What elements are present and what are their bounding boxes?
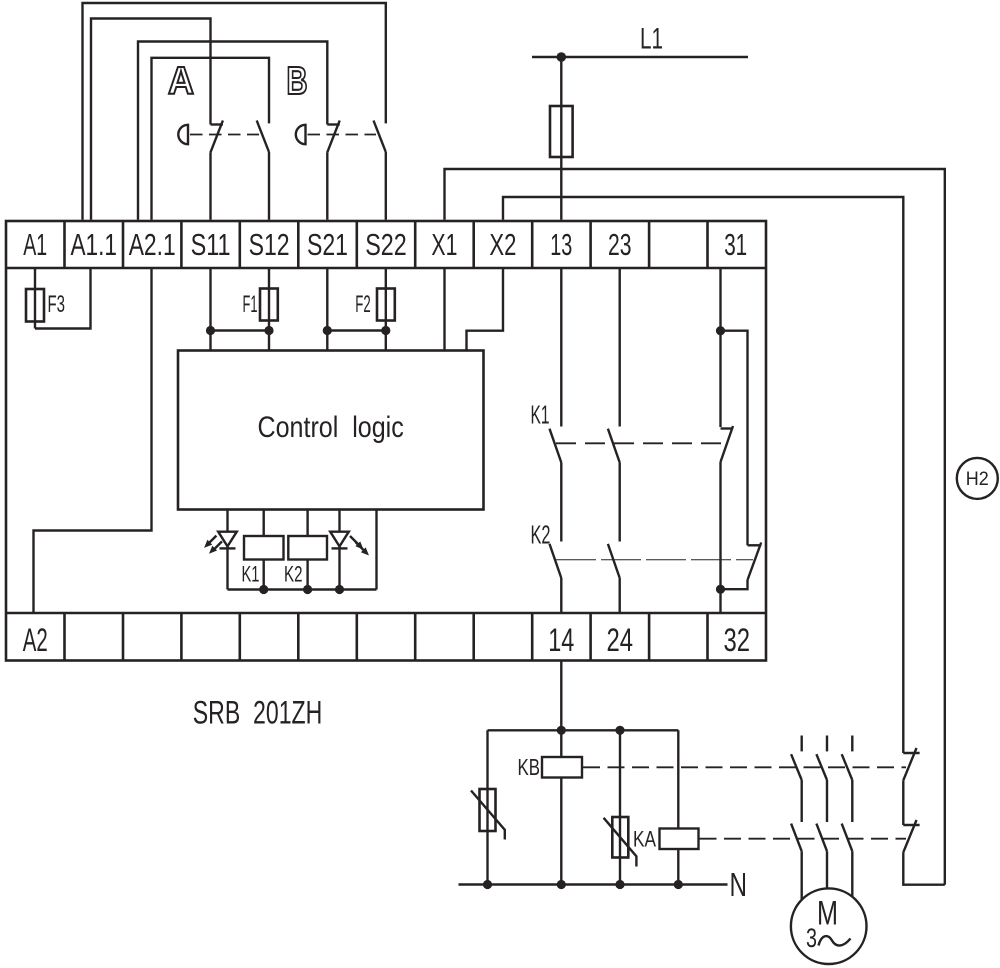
LED V2 cathode bar: [332, 547, 348, 549]
wire S12 down through F1 to control logic: [268, 268, 270, 351]
LED V1 emission arrow 2: [214, 541, 222, 549]
wire S22 down through F2 to control logic: [385, 268, 387, 351]
wire to terminal 24: [619, 578, 621, 613]
svg-text:F2: F2: [355, 291, 370, 318]
svg-text:Control logic: Control logic: [258, 411, 404, 444]
button B NO contact (S22) bottom lead: [385, 152, 387, 220]
junction coil bus at varistor 2: [615, 726, 624, 735]
svg-text:N: N: [730, 866, 748, 903]
LED V2 emission arrow 1: [350, 536, 359, 545]
button B NC contact (S21) lever: [327, 121, 339, 153]
svg-text:24: 24: [607, 622, 634, 658]
terminal dividers bottom row: [65, 613, 708, 661]
contact K1 NC (31-32) lever: [721, 426, 734, 462]
junction 31 branch: [716, 326, 725, 335]
svg-text:X2: X2: [489, 228, 516, 262]
wire to terminal 14: [560, 578, 562, 613]
svg-text:F1: F1: [243, 291, 258, 318]
phase L2 supply stub: [826, 736, 828, 752]
junction S11 bus: [206, 326, 215, 335]
dashed link KB coil to contacts: [583, 766, 906, 768]
fuse F3: [26, 289, 44, 322]
contact K2 NC (31-32) tick: [748, 544, 762, 546]
svg-text:F3: F3: [48, 291, 66, 318]
svg-text:14: 14: [548, 622, 574, 658]
junction S12 bus: [264, 326, 273, 335]
LED V2 triangle: [330, 532, 349, 547]
wire varistor 1 branch: [486, 730, 488, 884]
wire phase 2 between contactors: [826, 780, 828, 822]
wire X2 feedback run: [503, 197, 903, 753]
button A NC contact (S11) bottom lead: [209, 152, 211, 220]
wire between K1 and K2 contacts (13-14 path): [560, 463, 562, 542]
wire F3 return up to A1.1: [35, 268, 91, 329]
wire aux contacts to feedback join: [903, 852, 945, 884]
contact KB power phase 2 lever: [816, 754, 827, 780]
junction N at KB: [557, 880, 566, 889]
relay coil K2: [288, 536, 327, 560]
junction N at varistor 2: [615, 880, 624, 889]
phase L1 supply stub: [801, 736, 803, 752]
button B NO contact (S22) lever: [374, 121, 386, 153]
motor label tilde: [819, 936, 851, 945]
wire K1 NC to terminal 32: [719, 462, 721, 613]
junction LED2 bus: [335, 585, 344, 594]
svg-text:S11: S11: [191, 228, 231, 262]
wire X2 jog into control logic: [467, 268, 504, 351]
dashed link K2 contact row: [556, 559, 753, 561]
wire control logic to relay coil K2: [306, 510, 308, 590]
svg-text:M: M: [817, 895, 838, 933]
svg-text:32: 32: [723, 622, 750, 658]
svg-text:A1.1: A1.1: [70, 228, 117, 262]
contact KA aux NC lever: [903, 820, 916, 852]
neutral line N: [459, 883, 728, 885]
wire bus S21-S22: [327, 329, 386, 331]
junction S22 bus: [381, 326, 390, 335]
wire X1 down into control logic: [443, 268, 445, 351]
contact KA power phase 1 lever: [791, 824, 802, 852]
wire A1 down to fuse F3: [34, 268, 36, 329]
junction N at varistor 1: [483, 880, 492, 889]
svg-text:S22: S22: [365, 228, 407, 262]
contactor coil KB: [542, 757, 582, 778]
svg-text:13: 13: [550, 228, 572, 262]
svg-text:KA: KA: [633, 827, 656, 852]
wire S21 down to control logic: [326, 268, 328, 351]
wire loop A2.1 to S21 contact: [138, 42, 327, 220]
wire control logic right stub down: [375, 510, 377, 590]
varistor RV2: [612, 817, 628, 858]
contact KB power phase 1 lever: [791, 754, 802, 780]
relay coil K1: [244, 536, 284, 560]
svg-text:SRB 201ZH: SRB 201ZH: [193, 695, 322, 731]
svg-text:H2: H2: [966, 469, 989, 490]
svg-text:K1: K1: [531, 400, 550, 430]
button B actuator dashed link: [308, 134, 377, 136]
wire loop A1.1 to S11 contact: [91, 19, 211, 220]
wire phase 1 to motor: [801, 851, 803, 905]
terminal strip bottom row top edge: [6, 612, 766, 615]
fuse F2: [377, 289, 395, 321]
wire 31 branch to K2 NC: [721, 331, 748, 546]
svg-text:L1: L1: [640, 23, 663, 56]
svg-text:A2: A2: [23, 622, 48, 658]
dashed link KA coil to contacts: [700, 838, 907, 840]
junction coil bus at 14: [557, 726, 566, 735]
relay body outline SRB 201ZH: [6, 221, 766, 661]
button B actuator half-disc: [296, 125, 306, 144]
contact KB aux NC lever: [903, 748, 916, 780]
wire LED/coil bottom bus: [228, 588, 377, 590]
terminal dividers top row: [65, 221, 708, 268]
varistor RV1 diagonal: [471, 791, 505, 840]
wire bus S11-S12: [211, 329, 270, 331]
contact K1 NC (31-32) tick: [721, 427, 734, 429]
wire contactor coil bus: [488, 729, 679, 731]
contact KA power phase 3 lever: [842, 824, 853, 852]
svg-text:A1: A1: [23, 228, 47, 262]
wire phase 1 between contactors: [801, 780, 803, 822]
varistor RV1: [480, 789, 496, 831]
LED V1 emission arrow 1: [209, 536, 216, 543]
svg-text:S12: S12: [249, 228, 290, 262]
button B NC contact (S21) tick: [327, 123, 339, 125]
wire KA branch down to N: [677, 730, 679, 884]
junction K2 coil bus: [303, 585, 312, 594]
contact K1 NO (13-14) lever: [550, 429, 562, 463]
wire L1 down through fuse to terminal 13: [560, 57, 562, 220]
wire between aux contacts: [902, 780, 904, 825]
motor M 3-phase circle: [791, 888, 867, 964]
LED V2 emission arrow 2: [356, 542, 365, 551]
button A actuator dashed link: [190, 134, 259, 136]
wire control logic to LED2: [338, 510, 340, 590]
button A NC contact (S11) lever: [211, 121, 223, 153]
contact KB power phase 3 lever: [842, 754, 853, 780]
wire terminal 13 down: [560, 268, 562, 427]
svg-text:3: 3: [806, 923, 817, 953]
contact KA aux NC tick: [903, 824, 919, 826]
contactor coil KA: [660, 829, 699, 850]
wire A2.1 down and left to A2: [34, 268, 152, 613]
svg-text:S21: S21: [307, 228, 348, 262]
wire terminal 31 down: [719, 268, 721, 427]
wire phase 2 to motor: [826, 851, 828, 905]
contact K2 NC (31-32) lever: [748, 543, 762, 581]
svg-text:A2.1: A2.1: [129, 228, 176, 262]
varistor RV2 diagonal: [604, 818, 637, 867]
contact KA power phase 2 lever: [816, 824, 827, 852]
svg-text:K2: K2: [284, 562, 303, 587]
indicator lamp H2: [957, 458, 998, 499]
wire KB branch down to N: [560, 730, 562, 884]
junction N at KA: [674, 880, 683, 889]
button A NC contact (S11) tick: [211, 123, 223, 125]
wire terminal 14 down: [560, 661, 562, 731]
wire phase 3 to motor: [851, 851, 853, 905]
svg-text:31: 31: [724, 228, 747, 262]
supply line L1: [532, 56, 748, 58]
button B NC contact (S21) bottom lead: [326, 152, 328, 220]
contact K1 NO (23-24) lever: [608, 429, 620, 463]
junction S21 bus: [323, 326, 332, 335]
dashed link K1 contact row: [556, 442, 726, 444]
phase L3 supply stub: [851, 736, 853, 752]
contact K2 NO (13-14) lever: [550, 544, 562, 578]
button A actuator half-disc: [178, 125, 188, 144]
fuse F1: [260, 289, 278, 321]
wire S11 down to control logic: [209, 268, 211, 351]
svg-text:23: 23: [608, 228, 632, 262]
control logic block U1: [178, 351, 484, 510]
contact KB aux NC tick: [903, 752, 919, 754]
wire loop A2.1 to S12 contact (inner): [152, 58, 270, 220]
svg-text:K2: K2: [531, 520, 551, 550]
svg-text:X1: X1: [431, 228, 457, 262]
wire varistor 2 branch: [619, 730, 621, 884]
wire between K1 and K2 contacts (23-24 path): [619, 463, 621, 542]
wire K2 NC join to 32: [721, 580, 748, 589]
wire loop A1.1 to S22 contact (outer): [83, 3, 386, 220]
button A NO contact (S12) bottom lead: [268, 152, 270, 220]
button A NO contact (S12) lever: [257, 121, 269, 153]
LED V1 triangle: [218, 532, 237, 547]
LED V1 cathode bar: [220, 547, 236, 549]
contact K2 NO (23-24) lever: [608, 544, 620, 578]
svg-text:B: B: [287, 60, 308, 103]
wire phase 3 between contactors: [851, 780, 853, 822]
wire control logic to LED1: [226, 510, 228, 590]
junction K1 coil bus: [259, 585, 268, 594]
fuse F (L1 feed): [550, 106, 573, 157]
terminal strip top row bottom edge: [6, 267, 766, 270]
svg-text:A: A: [168, 60, 194, 103]
wire terminal 23 down: [619, 268, 621, 427]
wire control logic to relay coil K1: [263, 510, 265, 590]
junction L1 tap: [557, 52, 567, 62]
wire X1 feedback run: [445, 169, 945, 885]
svg-text:KB: KB: [518, 754, 541, 780]
junction NC parallel join: [716, 585, 725, 594]
svg-text:K1: K1: [242, 562, 260, 587]
